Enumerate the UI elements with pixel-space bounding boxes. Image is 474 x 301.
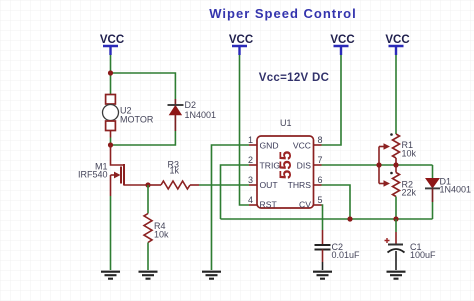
junction node THRS bus [347, 216, 352, 221]
capacitor C2 [315, 230, 331, 270]
motor U2 [103, 95, 119, 138]
svg-text:6: 6 [317, 175, 322, 185]
wire R3 to OUT pin [199, 184, 249, 186]
pin 1 GND [248, 135, 279, 150]
junction node drain [108, 142, 113, 147]
wire VCC1 to motor top [110, 55, 112, 94]
pin 4 RST [248, 195, 277, 209]
ground C1 [387, 272, 406, 279]
wire CV routing [322, 205, 323, 230]
svg-text:VCC: VCC [100, 34, 124, 46]
svg-text:VCC: VCC [330, 34, 354, 46]
svg-text:OUT: OUT [260, 180, 279, 190]
junction node R2 bottom bus [393, 216, 398, 221]
svg-text:8: 8 [317, 135, 322, 145]
svg-text:VCC: VCC [229, 34, 253, 46]
wire motor bottom [110, 138, 112, 146]
wire VCC4 to R1 [395, 55, 397, 134]
svg-text:10k: 10k [154, 230, 169, 240]
pin 2 TRIG [248, 155, 280, 170]
svg-text:VCC: VCC [385, 34, 409, 46]
wire VCC pin to VCC3 [322, 55, 342, 145]
pin 3 OUT [248, 175, 278, 190]
ground R4 [139, 272, 158, 279]
transistor M1 [111, 145, 149, 196]
pin 8 VCC [293, 135, 323, 150]
wire GND pin to ground [212, 145, 250, 270]
svg-text:DIS: DIS [297, 160, 312, 170]
svg-text:MOTOR: MOTOR [120, 115, 154, 125]
wire source to ground [110, 196, 112, 270]
resistor R1 potentiometer [390, 133, 399, 165]
svg-text:THRS: THRS [288, 180, 312, 190]
svg-text:22k: 22k [402, 188, 417, 198]
wire VCC1 branch to D2 top [111, 73, 176, 99]
svg-text:U1: U1 [280, 118, 292, 128]
junction node R1 R2 [393, 162, 398, 167]
wire THRS routing [322, 185, 351, 219]
svg-text:1k: 1k [170, 166, 180, 176]
junction node wipers to DIS [376, 162, 381, 167]
svg-text:5: 5 [317, 195, 322, 205]
svg-text:1N4001: 1N4001 [440, 185, 472, 195]
resistor R3 [148, 181, 199, 189]
svg-text:TRIG: TRIG [260, 160, 281, 170]
svg-text:10k: 10k [402, 149, 417, 159]
svg-text:Vcc=12V DC: Vcc=12V DC [259, 72, 329, 84]
ground C2 [313, 272, 332, 279]
op-amp U1 555 body [257, 136, 314, 208]
wire DIS line [322, 164, 433, 166]
svg-text:GND: GND [260, 140, 279, 150]
wiper R1 arrow [379, 143, 390, 165]
power VCC 3 [330, 34, 354, 55]
diode D1 [425, 165, 440, 219]
svg-text:7: 7 [317, 155, 322, 165]
resistor R4 [144, 185, 152, 270]
svg-text:0.01uF: 0.01uF [332, 250, 361, 260]
svg-text:1N4001: 1N4001 [185, 110, 217, 120]
capacitor C1 [385, 219, 405, 270]
resistor R2 potentiometer [390, 165, 399, 219]
junction node gate [145, 182, 150, 187]
svg-text:CV: CV [299, 199, 311, 209]
wire D2 bottom to motor bottom [111, 131, 176, 145]
wire RST to VCC2 [240, 55, 250, 205]
svg-text:IRF540: IRF540 [78, 170, 108, 180]
svg-text:4: 4 [248, 195, 253, 205]
pin 5 CV [299, 195, 322, 209]
svg-text:Wiper Speed Control: Wiper Speed Control [209, 6, 356, 21]
svg-text:100uF: 100uF [410, 250, 436, 260]
svg-text:2: 2 [248, 155, 253, 165]
svg-text:3: 3 [248, 175, 253, 185]
junction node motor top [108, 70, 113, 75]
svg-text:VCC: VCC [293, 140, 311, 150]
power VCC 2 [229, 34, 253, 55]
diode D2 [168, 99, 184, 131]
ground source [101, 272, 120, 279]
svg-text:RST: RST [260, 199, 278, 209]
pin 7 DIS [297, 155, 323, 170]
power VCC 1 [100, 34, 124, 55]
wire TRIG routing [221, 165, 250, 219]
pin 6 THRS [288, 175, 323, 190]
ground chip [202, 272, 221, 279]
power VCC 4 [385, 34, 409, 55]
svg-text:D2: D2 [185, 100, 197, 110]
svg-text:1: 1 [248, 135, 253, 145]
wiper R2 arrow [379, 165, 390, 187]
wire bottom bus [221, 218, 433, 220]
